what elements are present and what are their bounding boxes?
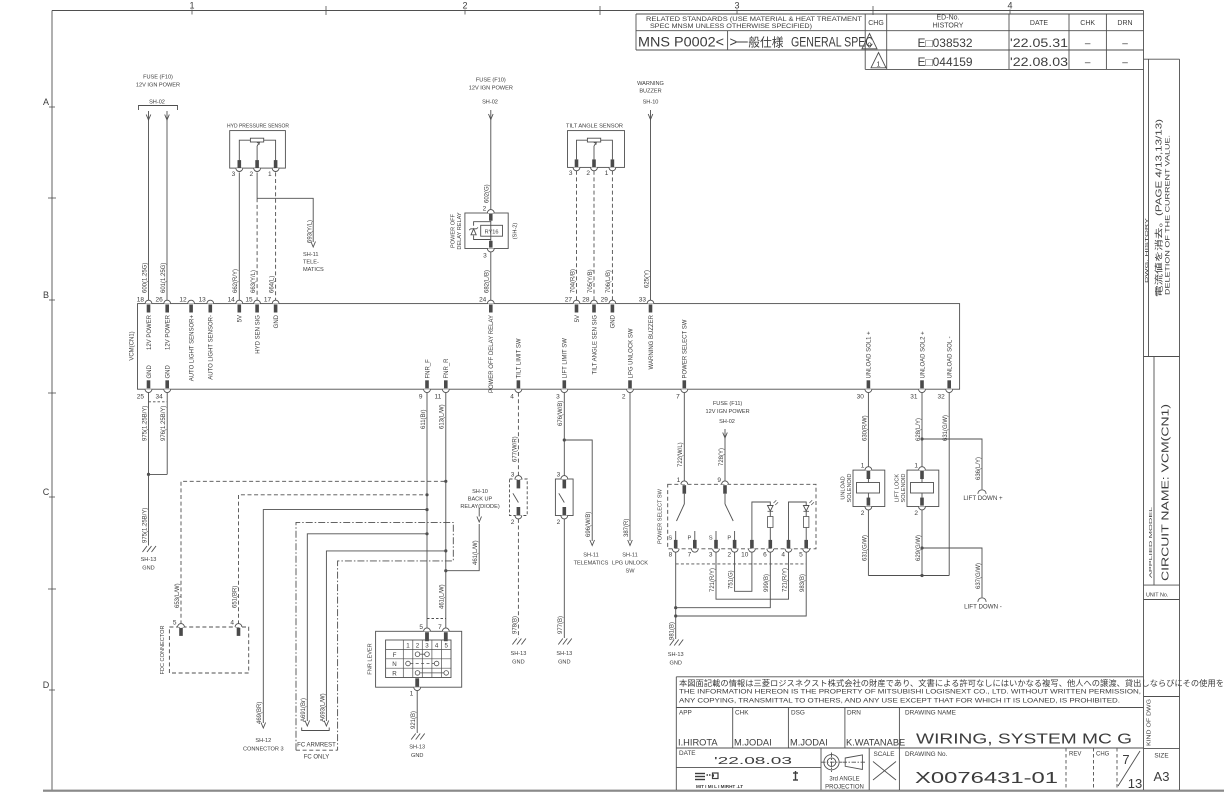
PSS pin 10 [750,540,754,549]
svg-text:977(B): 977(B) [558,616,564,634]
FNR contact table [386,640,451,678]
wire 625(Y) [650,110,652,300]
svg-text:8: 8 [669,552,673,559]
svg-text:18: 18 [137,297,145,304]
svg-text:DRN: DRN [1117,20,1132,27]
svg-text:13: 13 [1128,776,1142,791]
HYD sensor pin 1 [274,160,278,168]
svg-text:9: 9 [419,394,423,401]
FDC pin 5 [178,624,185,627]
svg-text:M.JODAI: M.JODAI [734,738,772,748]
ground SH-13 (left) [143,546,157,552]
svg-text:GND: GND [142,566,154,572]
wire 601(1.25G) [166,111,168,300]
VCM pin 34 (GND) [164,389,171,392]
svg-text:28: 28 [582,297,590,304]
svg-text:P: P [727,536,731,542]
FNR pin 5 [424,628,431,631]
TILT sensor pin 1 [611,159,615,167]
svg-text:625(Y): 625(Y) [644,270,650,288]
VCM pin 2 (LPG UNLOCK SW) [627,389,634,392]
svg-text:CHK: CHK [1080,20,1095,27]
wire 613(L/W) [445,393,447,630]
switch TILT LIMIT SW [510,479,528,516]
svg-text:TILT ANGLE SEN SIG: TILT ANGLE SEN SIG [592,315,598,375]
svg-text:LIFT LIMIT SW: LIFT LIMIT SW [563,338,569,379]
svg-text:A: A [43,97,49,107]
svg-text:GENERAL SPEC: GENERAL SPEC [791,35,873,50]
HYD sensor pin 2 [255,160,259,168]
svg-text:29: 29 [601,297,609,304]
wire 461(L/W) to SH-10 BACK UP RELAY(DIODE) [444,569,447,572]
svg-text:REV: REV [1069,752,1081,758]
svg-text:X0076431-01: X0076431-01 [915,770,1058,787]
svg-text:GND: GND [512,660,524,666]
VCM pin 27 (5V) [573,300,580,303]
VCM pin 30 (UNLOAD SOL1 +) [865,389,872,392]
svg-text:UNLOAD SOL -: UNLOAD SOL - [948,336,954,378]
svg-text:LPG UNLOCK: LPG UNLOCK [612,561,648,567]
svg-text:RELATED STANDARDS (USE MATERIA: RELATED STANDARDS (USE MATERIAL & HEAT T… [646,16,862,23]
svg-text:5: 5 [419,624,423,631]
svg-text:1: 1 [268,171,272,178]
wire 705(Y/B) [593,171,595,300]
svg-text:705(Y/B): 705(Y/B) [588,269,594,293]
svg-text:TELE-: TELE- [303,260,319,266]
svg-text:999(B): 999(B) [764,574,770,592]
ground SH-13 (tilt sw) [512,639,526,645]
wire 981(B) [675,552,677,639]
svg-text:12V POWER: 12V POWER [147,314,153,350]
svg-text:LIFT DOWN -: LIFT DOWN - [964,604,1002,611]
svg-text:9: 9 [717,477,721,484]
svg-text:DRAWING NAME: DRAWING NAME [905,710,956,717]
svg-text:2: 2 [586,170,590,177]
svg-text:27: 27 [565,297,573,304]
svg-text:1: 1 [410,691,414,698]
solenoid LIFT LOCK SOLENOID [907,470,939,506]
harness tie FNR [427,618,446,620]
VCM pin 32 (UNLOAD SOL -) [946,389,953,392]
svg-text:7: 7 [1122,752,1129,767]
svg-text:SPEC MNSM UNLESS OTHERWISE SPE: SPEC MNSM UNLESS OTHERWISE SPECIFIED) [650,23,812,30]
svg-text:–: – [1122,58,1128,69]
svg-text:CONNECTOR 3: CONNECTOR 3 [243,747,284,753]
svg-text:SH-02: SH-02 [719,419,735,425]
VCM pin 15 (HYD SEN SIG) [254,300,261,303]
svg-text:2: 2 [249,171,253,178]
svg-text:662(R/Y): 662(R/Y) [233,269,239,293]
svg-text:MIT I MI L I MIRHT .LT: MIT I MI L I MIRHT .LT [696,784,743,789]
PSS LED 2 + resistor [789,502,807,540]
svg-text:722(W/L): 722(W/L) [678,442,684,467]
svg-text:5: 5 [799,552,803,559]
wire 677(W/R) [517,393,519,476]
svg-text:'22.05.31: '22.05.31 [1010,38,1068,50]
svg-text:I.HIROTA: I.HIROTA [678,738,718,748]
svg-text:SH-13: SH-13 [668,652,684,658]
PSS switch A [683,494,685,504]
svg-text:3rd ANGLE: 3rd ANGLE [829,777,859,783]
svg-text:469(BR): 469(BR) [257,702,263,724]
svg-text:SW: SW [625,569,635,575]
VCM pin 28 (TILT ANGLE SEN SIG) [591,300,598,303]
svg-text:25: 25 [137,394,145,401]
svg-text:30: 30 [857,394,865,401]
svg-text:一般仕様: 一般仕様 [737,35,784,50]
svg-text:S: S [668,536,672,542]
svg-text:A691(Br): A691(Br) [301,698,307,722]
FC ONLY boundary [296,522,453,750]
svg-text:VCM(CN1): VCM(CN1) [130,331,136,360]
svg-text:WARNING BUZZER: WARNING BUZZER [649,314,655,369]
FNR pin 1 [414,687,421,690]
svg-text:2: 2 [727,552,731,559]
svg-text:E□044159: E□044159 [918,57,973,69]
wire 921(B) [416,691,418,733]
svg-text:706(L/B): 706(L/B) [606,270,612,293]
svg-text:–: – [1122,39,1128,50]
svg-text:TELEMATICS: TELEMATICS [574,561,609,567]
svg-text:653(L/W): 653(L/W) [175,583,181,608]
svg-text:POWER SELECT SW: POWER SELECT SW [683,319,689,378]
svg-text:461(L/W): 461(L/W) [440,584,446,609]
svg-text:975(1.25B/Y): 975(1.25B/Y) [142,406,148,441]
svg-text:2: 2 [557,519,561,526]
svg-text:GND: GND [669,661,681,667]
svg-text:PROJECTION: PROJECTION [825,785,864,791]
FNR contacts N row [406,661,411,666]
wire 629(G/W) [921,510,923,576]
svg-text:628(L/Y): 628(L/Y) [916,418,922,441]
FDC pin 4 [235,624,242,627]
svg-text:637(G/W): 637(G/W) [976,563,982,589]
wire 631(G/W) from pin 32 [948,393,950,576]
svg-text:26: 26 [155,297,163,304]
svg-text:7: 7 [676,394,680,401]
HYD sensor pin 3 [238,160,242,168]
VCM pin 17 (GND) [272,300,279,303]
svg-text:FC ARMREST: FC ARMREST [297,743,336,749]
VCM pin 18 (12V POWER) [145,300,152,303]
svg-text:SCALE: SCALE [874,751,895,758]
svg-text:(SH-2): (SH-2) [513,223,519,240]
svg-text:HISTORY: HISTORY [933,23,964,30]
svg-text:GND: GND [274,314,280,328]
svg-text:LIFT DOWN +: LIFT DOWN + [963,495,1003,502]
PSS pin 6 [769,540,773,549]
svg-text:4: 4 [1007,1,1012,11]
svg-text:ED-No.: ED-No. [937,15,960,22]
svg-text:CIRCUIT NAME: VCM(CN1): CIRCUIT NAME: VCM(CN1) [1160,404,1172,581]
svg-text:RELAY(DIODE): RELAY(DIODE) [460,504,500,510]
svg-text:651(BR): 651(BR) [232,586,238,608]
svg-text:N: N [392,661,396,668]
svg-text:682(L/B): 682(L/B) [485,270,491,293]
svg-text:17: 17 [264,297,272,304]
svg-text:1: 1 [861,463,865,470]
svg-text:1: 1 [876,60,880,69]
svg-text:12V IGN POWER: 12V IGN POWER [136,83,180,89]
FC ARMREST bracket [302,728,330,731]
PSS pin 1 [681,481,688,484]
svg-text:CHK: CHK [735,710,749,717]
TILT sensor pin 3 [575,159,579,167]
svg-text:1: 1 [406,643,410,650]
wire 682(L/B) [490,252,492,300]
svg-text:FNR_F: FNR_F [425,359,431,379]
wire 637(G/W) LIFT DOWN - [922,548,982,597]
svg-text:APPLIED MODEL: APPLIED MODEL [1148,506,1154,578]
svg-text:SH-11: SH-11 [303,252,318,258]
svg-text:728(Y): 728(Y) [719,448,725,466]
wire 728(Y) [724,429,726,483]
PSS pin 7 [693,540,697,549]
wire 387(R) to SH-11 LPG UNLOCK SW [629,393,631,541]
svg-text:SOLENOID: SOLENOID [847,474,853,503]
svg-text:HYD SEN SIG: HYD SEN SIG [255,315,261,354]
svg-text:12V IGN POWER: 12V IGN POWER [706,409,750,415]
wire 721(R/Y) loop pins 3-4 [716,552,789,599]
VCM pin 9 (FNR_F) [424,389,431,392]
svg-text:602(G): 602(G) [485,184,491,203]
VCM pin 24 (POWER OFF DELAY RELAY) [487,300,494,303]
svg-text:24: 24 [479,297,487,304]
svg-text:5V: 5V [238,315,244,322]
wire 975(1.25B/Y) [148,393,150,546]
svg-text:WARNING: WARNING [637,81,664,87]
svg-text:GND: GND [558,660,570,666]
right sidebar [1144,58,1180,60]
VCM pin 7 (POWER SELECT SW) [681,389,688,392]
wire 999(B) [676,552,771,608]
svg-text:DATE: DATE [679,750,696,757]
svg-text:32: 32 [937,394,945,401]
svg-text:2: 2 [914,510,918,517]
ground SH-13 (PSS) [670,640,684,646]
svg-text:721(R/Y): 721(R/Y) [782,568,788,592]
revision row 0 [862,34,877,49]
VCM pin 26 (12V POWER) [164,300,171,303]
svg-text:33: 33 [639,297,647,304]
PSS pin 5 [804,540,808,549]
VCM pin 25 (GND) [145,389,152,392]
FNR pin 7 [442,628,449,631]
wire 676(W/B) [563,393,565,476]
3rd angle projection symbol [821,753,865,773]
svg-text:976(1.25B/Y): 976(1.25B/Y) [161,406,167,441]
VCM pin 11 (FNR_R) [442,389,449,392]
svg-text:978(B): 978(B) [512,616,518,634]
svg-text:'22.08.03: '22.08.03 [1010,57,1068,69]
svg-text:3: 3 [569,170,573,177]
svg-text:THE INFORMATION HEREON IS THE: THE INFORMATION HEREON IS THE PROPERTY O… [679,689,1141,696]
svg-text:3: 3 [709,552,713,559]
svg-text:1: 1 [677,477,681,484]
svg-text:2: 2 [462,1,467,11]
svg-text:DELAY RELAY: DELAY RELAY [457,212,463,250]
svg-text:APP: APP [679,710,692,717]
svg-text:CHG: CHG [868,20,884,27]
connector VCM(CN1) [138,304,960,390]
PSS LED 1 + resistor [752,502,770,540]
svg-text:630(R/W): 630(R/W) [862,415,868,441]
svg-text:12V IGN POWER: 12V IGN POWER [469,86,513,92]
svg-text:631(G/W): 631(G/W) [943,415,949,441]
VCM pin 13 (AUTO LIGHT SENSOR-) [207,300,214,303]
svg-text:POWER OFF DELAY RELAY: POWER OFF DELAY RELAY [489,315,495,393]
svg-text:A693(L/W): A693(L/W) [320,693,326,722]
svg-text:693(Y/L): 693(Y/L) [307,220,313,243]
switch POWER SELECT SW [668,484,816,549]
svg-text:CHG: CHG [1096,752,1110,758]
PSS pin 3 [714,540,718,549]
svg-text:SIZE: SIZE [1154,753,1168,760]
svg-text:2: 2 [483,206,487,213]
wire 602(G) [490,110,492,210]
svg-text:5: 5 [173,620,177,627]
svg-text:663(Y/L): 663(Y/L) [251,270,257,293]
svg-text:983(B): 983(B) [800,574,806,592]
svg-text:0: 0 [867,41,871,50]
wire 976(1.25B/Y) [166,393,168,475]
wire 751(G) loop pins 2-10 [735,552,752,591]
svg-text:FUSE (F11): FUSE (F11) [713,401,743,407]
VCM pin 4 (TILT LIMIT SW) [515,389,522,392]
revision row 1 [871,53,886,68]
svg-text:664(L): 664(L) [269,276,275,293]
VCM pin 12 (AUTO LIGHT SENSOR+) [188,300,195,303]
svg-text:LIFT LOCK: LIFT LOCK [895,474,901,502]
TILT sensor pin 2 [592,159,596,167]
svg-text:TILT LIMIT SW: TILT LIMIT SW [517,338,523,378]
svg-text:C: C [43,487,50,497]
svg-text:3: 3 [483,253,487,260]
svg-text:FDC CONNECTOR: FDC CONNECTOR [160,626,166,675]
svg-text:1: 1 [605,170,609,177]
svg-text:SH-02: SH-02 [149,100,165,106]
wire 696(W/B) to SH-11 TELEMATICS [564,440,592,541]
VCM pin 14 (5V) [236,300,243,303]
svg-text:GND: GND [147,365,153,379]
svg-text:631(G/W): 631(G/W) [862,535,868,561]
wire 704(R/B) [576,171,578,300]
svg-text:FUSE (F10): FUSE (F10) [143,75,173,81]
svg-text:HYD PRESSURE SENSOR: HYD PRESSURE SENSOR [227,124,289,130]
svg-text:611(Br): 611(Br) [421,409,427,429]
svg-text:751(G): 751(G) [729,570,735,589]
svg-text:676(W/B): 676(W/B) [558,401,564,426]
revision table [636,13,1144,15]
wire 662(R/Y) [238,172,240,300]
svg-text:4: 4 [781,552,785,559]
svg-text:SH-10: SH-10 [472,489,488,495]
wire 653(L/W) route [181,481,446,624]
svg-text:'22.08.03: '22.08.03 [714,755,792,767]
svg-text:921(B): 921(B) [411,711,417,729]
svg-text:R: R [392,671,397,678]
wire 722(W/L) [683,393,685,483]
svg-text:696(W/B): 696(W/B) [586,512,592,537]
svg-text:WIRING, SYSTEM MC G: WIRING, SYSTEM MC G [916,732,1132,748]
svg-text:BACK UP: BACK UP [468,497,493,503]
svg-text:SH-11: SH-11 [583,553,598,559]
wire 600(1.25G) [148,111,150,300]
connector FDC [169,627,248,673]
svg-text:13: 13 [199,297,207,304]
wire 611(Br) [426,393,428,630]
svg-text:3: 3 [232,171,236,178]
svg-text:K.WATANABE: K.WATANABE [846,738,905,748]
harness tie PSS [676,563,807,565]
svg-text:629(G/W): 629(G/W) [916,535,922,561]
svg-text:MATICS: MATICS [303,267,324,273]
svg-text:D: D [43,680,50,690]
svg-text:SH-13: SH-13 [409,745,425,751]
wire 630(R/W) [867,393,869,469]
svg-text:3: 3 [734,1,739,11]
svg-text:FNR LEVER: FNR LEVER [368,643,374,674]
svg-text:704(R/B): 704(R/B) [570,269,576,293]
svg-text:LPG UNLOCK SW: LPG UNLOCK SW [628,328,634,378]
svg-text:–: – [1085,39,1091,50]
svg-text:461(L/W): 461(L/W) [473,540,479,565]
wire 664(L) [275,172,277,300]
svg-text:FNR_R: FNR_R [444,358,450,379]
wire 978(B) [517,519,519,638]
PSS pin 9 [722,481,729,484]
svg-text:975(1.25B/Y): 975(1.25B/Y) [142,508,148,543]
VCM pin 29 (GND) [609,300,616,303]
svg-text:12: 12 [179,297,187,304]
svg-text:3: 3 [425,643,429,650]
VCM pin 3 (LIFT LIMIT SW) [561,389,568,392]
svg-text:GND: GND [411,753,423,759]
svg-text:613(L/W): 613(L/W) [440,404,446,429]
svg-text:DATE: DATE [1030,20,1048,27]
wire 706(L/B) [611,171,613,300]
maker logo [695,771,798,780]
wire 636(L/Y) LIFT DOWN + [922,439,982,489]
switch FNR LEVER [376,631,462,687]
ground SH-13 (lift sw) [558,639,572,645]
svg-text:14: 14 [228,297,236,304]
PSS switch B [724,494,726,504]
svg-text:7: 7 [438,624,442,631]
svg-text:F: F [393,652,397,659]
relay RY16 POWER OFF DELAY RELAY [465,213,508,249]
svg-text:4: 4 [230,620,234,627]
svg-text:4: 4 [435,643,439,650]
svg-text:–: – [1085,58,1091,69]
svg-text:600(1.25G): 600(1.25G) [142,263,148,293]
wire A693(L/W) [326,551,445,721]
svg-text:UNLOAD: UNLOAD [841,476,847,499]
svg-text:7: 7 [688,552,692,559]
svg-text:TILT ANGLE SENSOR: TILT ANGLE SENSOR [566,124,623,130]
switch LIFT LIMIT SW [555,479,573,516]
svg-text:1: 1 [914,463,918,470]
svg-text:677(W/R): 677(W/R) [512,436,518,462]
svg-text:15: 15 [245,297,253,304]
svg-text:M.JODAI: M.JODAI [790,738,828,748]
svg-text:E□038532: E□038532 [918,38,973,50]
svg-text:POWER OFF: POWER OFF [451,213,457,247]
svg-text:3: 3 [557,472,561,479]
svg-text:SH-13: SH-13 [510,651,526,657]
wire 469(BR) to SH-12 CONNECTOR 3 [263,510,427,723]
svg-text:FUSE (F10): FUSE (F10) [476,78,506,84]
